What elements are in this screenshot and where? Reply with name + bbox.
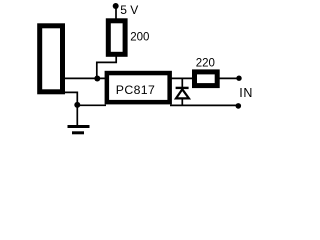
svg-text:5 V: 5 V xyxy=(120,3,138,17)
svg-text:IN: IN xyxy=(239,86,253,100)
svg-text:200: 200 xyxy=(130,32,149,44)
svg-text:220: 220 xyxy=(196,57,215,69)
svg-text:PC817: PC817 xyxy=(116,83,155,97)
